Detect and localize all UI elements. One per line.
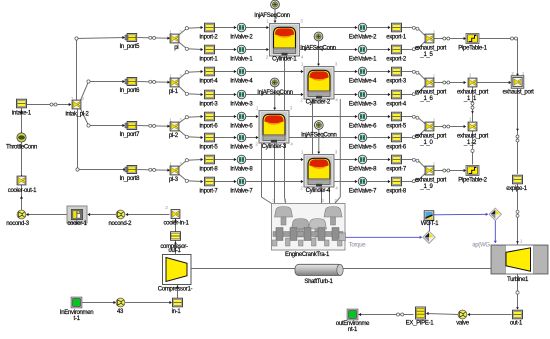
svg-text:ap(WG: ap(WG	[472, 242, 490, 248]
pipe inport-2	[205, 23, 215, 32]
svg-text:intake-1: intake-1	[12, 111, 32, 117]
svg-text:Torque: Torque	[349, 242, 367, 248]
throttle Throttle-Conn	[17, 133, 26, 142]
pipetable PipeTable-2	[466, 166, 479, 176]
injector-conn InjAFSeqConn	[271, 0, 280, 9]
svg-text:ThrottleConn: ThrottleConn	[6, 144, 37, 150]
svg-text:export-8: export-8	[386, 188, 407, 194]
orifice valve	[458, 310, 467, 319]
svg-text:In_port8: In_port8	[119, 176, 140, 182]
flowsplit pl-2	[170, 122, 179, 131]
svg-text:nocond-2: nocond-2	[108, 221, 132, 227]
svg-text:exhaust_port: exhaust_port	[502, 90, 534, 96]
environment InEnvironment-1	[71, 297, 82, 308]
valve ExhValve-1	[358, 45, 367, 54]
flowsplit cooler-in-1	[171, 210, 180, 219]
svg-text:InjAFSeqConn: InjAFSeqConn	[257, 90, 292, 96]
valve ExhValve-7	[358, 177, 367, 186]
svg-text:In_port6: In_port6	[119, 88, 140, 94]
pipe expipe-1	[513, 175, 523, 184]
svg-text:InjAFSeqConn: InjAFSeqConn	[301, 133, 336, 139]
pipe inport-4	[205, 67, 215, 76]
svg-text:InValve-7: InValve-7	[230, 188, 253, 194]
svg-text:InValve-3: InValve-3	[230, 101, 253, 107]
valve InValve-3	[237, 90, 246, 99]
valve ExhValve-5	[358, 133, 367, 142]
valve InValve-2	[237, 23, 246, 32]
valve ExhValve-4	[358, 67, 367, 76]
svg-text:Cylinder-3: Cylinder-3	[262, 144, 287, 150]
injector-conn InjAFSeqConn	[314, 32, 323, 41]
svg-text:intak_pl-2: intak_pl-2	[65, 112, 89, 118]
flowsplit intak_pl-2	[72, 100, 81, 109]
flowsplit exhaust_port_1_2	[468, 122, 477, 131]
pipe EX_PIPE-1	[416, 307, 426, 319]
svg-text:ExhValve-2: ExhValve-2	[349, 34, 377, 40]
svg-text:Cylinder-1: Cylinder-1	[272, 56, 297, 62]
svg-text:_1_6: _1_6	[419, 96, 433, 102]
pipe compressor-out-1	[171, 232, 181, 241]
injector-conn InjAFSeqConn	[270, 78, 279, 87]
svg-text:inport-4: inport-4	[200, 78, 219, 84]
svg-text:pl-3: pl-3	[169, 177, 179, 183]
endcap In_port8	[125, 166, 137, 174]
pipe inport-3	[205, 90, 215, 99]
endcap In_port7	[125, 122, 137, 130]
svg-text:ExhValve-3: ExhValve-3	[349, 101, 377, 107]
svg-text:_1_0: _1_0	[419, 140, 433, 146]
pipe export-3	[392, 67, 402, 76]
valve ExhValve-2	[358, 23, 367, 32]
svg-text:inport-1: inport-1	[200, 56, 219, 62]
svg-text:in-1: in-1	[172, 309, 182, 315]
pipe inport-5	[205, 133, 215, 142]
cylinder Cylinder-1	[270, 24, 300, 57]
flowsplit pl	[170, 34, 179, 43]
pipetable PipeTable-1	[466, 34, 479, 44]
svg-text:ExhValve-1: ExhValve-1	[349, 56, 377, 62]
valve ExhValve-3	[358, 90, 367, 99]
compressor Compressor1	[163, 255, 192, 285]
svg-text:cooler-1: cooler-1	[67, 221, 87, 227]
pipe inport-6	[205, 112, 215, 121]
svg-text:exhaust_port: exhaust_port	[415, 134, 447, 140]
cylinder Cylinder-3	[259, 111, 289, 144]
pipe in-1	[173, 298, 183, 307]
sensor torque diamond	[423, 231, 435, 243]
pipe export-5	[392, 112, 402, 121]
cylinder Cylinder-2	[304, 67, 334, 100]
svg-text:pl-1: pl-1	[169, 89, 179, 95]
svg-text:inport-5: inport-5	[200, 144, 219, 150]
svg-text:InValve-8: InValve-8	[230, 166, 253, 172]
pipe export-1	[392, 23, 402, 32]
pipe inport-1	[205, 45, 215, 54]
svg-text:Cylinder-2: Cylinder-2	[306, 100, 331, 106]
valve ExhValve-8	[358, 155, 367, 164]
svg-text:PipeTable-1: PipeTable-1	[458, 45, 487, 51]
svg-text:pl: pl	[174, 45, 178, 51]
svg-text:inport-3: inport-3	[200, 101, 219, 107]
pipe export-6	[392, 133, 402, 142]
svg-text:export-3: export-3	[386, 78, 407, 84]
svg-text:pl-2: pl-2	[169, 133, 179, 139]
valve InValve-8	[237, 155, 246, 164]
svg-text:exhaust_port: exhaust_port	[415, 46, 447, 52]
orifice 43	[116, 298, 125, 307]
svg-text:In_port7: In_port7	[119, 132, 140, 138]
svg-text:WGT-1: WGT-1	[421, 221, 439, 227]
svg-text:valve: valve	[456, 321, 469, 327]
valve InValve-4	[237, 67, 246, 76]
endcap In_port6	[125, 78, 137, 86]
svg-text:inport-6: inport-6	[200, 123, 219, 129]
svg-text:exhaust_port: exhaust_port	[457, 134, 489, 140]
flowsplit exhaust_port_1_5	[425, 34, 434, 43]
svg-text:inport-2: inport-2	[200, 34, 219, 40]
endcap In_port5	[125, 34, 137, 42]
flowsplit pl-3	[170, 166, 179, 175]
shaft ShaftTurb-1	[295, 264, 343, 275]
svg-text:export-5: export-5	[386, 123, 407, 129]
svg-text:43: 43	[117, 309, 124, 315]
svg-text:ExhValve-7: ExhValve-7	[349, 188, 377, 194]
svg-text:export-6: export-6	[386, 144, 407, 150]
flowsplit cooler-out-1	[17, 176, 26, 185]
svg-text:ExhValve-4: ExhValve-4	[349, 78, 377, 84]
svg-text:InjAFSeqConn: InjAFSeqConn	[254, 13, 289, 19]
svg-text:ExhValve-8: ExhValve-8	[349, 166, 377, 172]
flowsplit exhaust_port_1_6	[425, 78, 434, 87]
svg-text:cooler-in-1: cooler-in-1	[163, 221, 189, 227]
svg-text:export-2: export-2	[386, 56, 407, 62]
pipe export-7	[392, 155, 402, 164]
turbine Turbine1	[491, 245, 548, 274]
environment outEnvironment-1	[347, 309, 358, 320]
orifice nocond-3	[17, 210, 26, 219]
flowsplit exhaust_port_1_1	[468, 78, 477, 87]
svg-text:exhaust_port: exhaust_port	[457, 90, 489, 96]
svg-text:_1_2: _1_2	[463, 140, 477, 146]
svg-text:InValve-5: InValve-5	[230, 144, 253, 150]
injector-conn InjAFSeqConn	[314, 121, 323, 130]
pipe export-4	[392, 90, 402, 99]
svg-text:InjAFSeqConn: InjAFSeqConn	[300, 45, 335, 51]
svg-text:_1_1: _1_1	[463, 96, 477, 102]
svg-text:Turbine1: Turbine1	[507, 277, 529, 283]
svg-text:export-4: export-4	[386, 101, 407, 107]
valve InValve-5	[237, 133, 246, 142]
svg-text:inport-7: inport-7	[200, 188, 219, 194]
cooler cooler-1	[67, 206, 87, 223]
svg-text:nocond-3: nocond-3	[6, 221, 30, 227]
cylinder Cylinder-4	[304, 155, 334, 188]
svg-text:InValve-2: InValve-2	[230, 34, 253, 40]
svg-text:ExhValve-5: ExhValve-5	[349, 144, 377, 150]
svg-text:ShaftTurb-1: ShaftTurb-1	[304, 279, 333, 285]
valve InValve-6	[237, 112, 246, 121]
svg-text:export-7: export-7	[386, 166, 407, 172]
svg-text:cooler-out-1: cooler-out-1	[8, 188, 37, 194]
svg-text:EngineCrankTra-1: EngineCrankTra-1	[285, 252, 330, 258]
svg-text:InValve-4: InValve-4	[230, 78, 253, 84]
pipe intake-1	[17, 99, 27, 108]
svg-text:t-1: t-1	[74, 316, 81, 322]
pipe export-8	[392, 177, 402, 186]
svg-text:ExhValve-6: ExhValve-6	[349, 123, 377, 129]
controller WGT-1	[424, 211, 434, 221]
svg-text:_1_9: _1_9	[419, 184, 433, 190]
svg-text:expipe-1: expipe-1	[506, 186, 528, 192]
pipe out-1	[513, 310, 523, 319]
pipe inport-7	[205, 177, 215, 186]
svg-text:nt-1: nt-1	[348, 327, 358, 333]
svg-text:PipeTable-2: PipeTable-2	[458, 177, 487, 183]
pipe inport-8	[205, 155, 215, 164]
flowsplit exhaust_port_1_9	[425, 166, 434, 175]
svg-text:Compressor1-: Compressor1-	[158, 286, 193, 292]
flowsplit exhaust_port_1_0	[425, 122, 434, 131]
svg-text:In_port5: In_port5	[119, 44, 140, 50]
svg-text:InValve-1: InValve-1	[230, 56, 253, 62]
svg-text:EX_PIPE-1: EX_PIPE-1	[406, 321, 435, 327]
flowsplit exhaust_port main	[511, 76, 524, 89]
svg-text:exhaust_port: exhaust_port	[415, 90, 447, 96]
orifice nocond-2	[116, 210, 125, 219]
svg-text:out-1: out-1	[168, 248, 181, 254]
engine-crank EngineCrankTra-1	[272, 204, 346, 251]
valve ExhValve-6	[358, 112, 367, 121]
flowsplit pl-1	[170, 78, 179, 87]
actuator wastegate diamond	[489, 208, 501, 220]
valve InValve-7	[237, 177, 246, 186]
svg-text:_1_5: _1_5	[419, 52, 433, 58]
svg-text:out-1: out-1	[510, 321, 523, 327]
svg-text:export-1: export-1	[386, 34, 407, 40]
svg-text:InValve-6: InValve-6	[230, 123, 253, 129]
svg-text:inport-8: inport-8	[200, 166, 219, 172]
svg-text:exhaust_port: exhaust_port	[415, 178, 447, 184]
pipe export-2	[392, 45, 402, 54]
valve InValve-1	[237, 45, 246, 54]
svg-text:Cylinder-4: Cylinder-4	[306, 188, 331, 194]
